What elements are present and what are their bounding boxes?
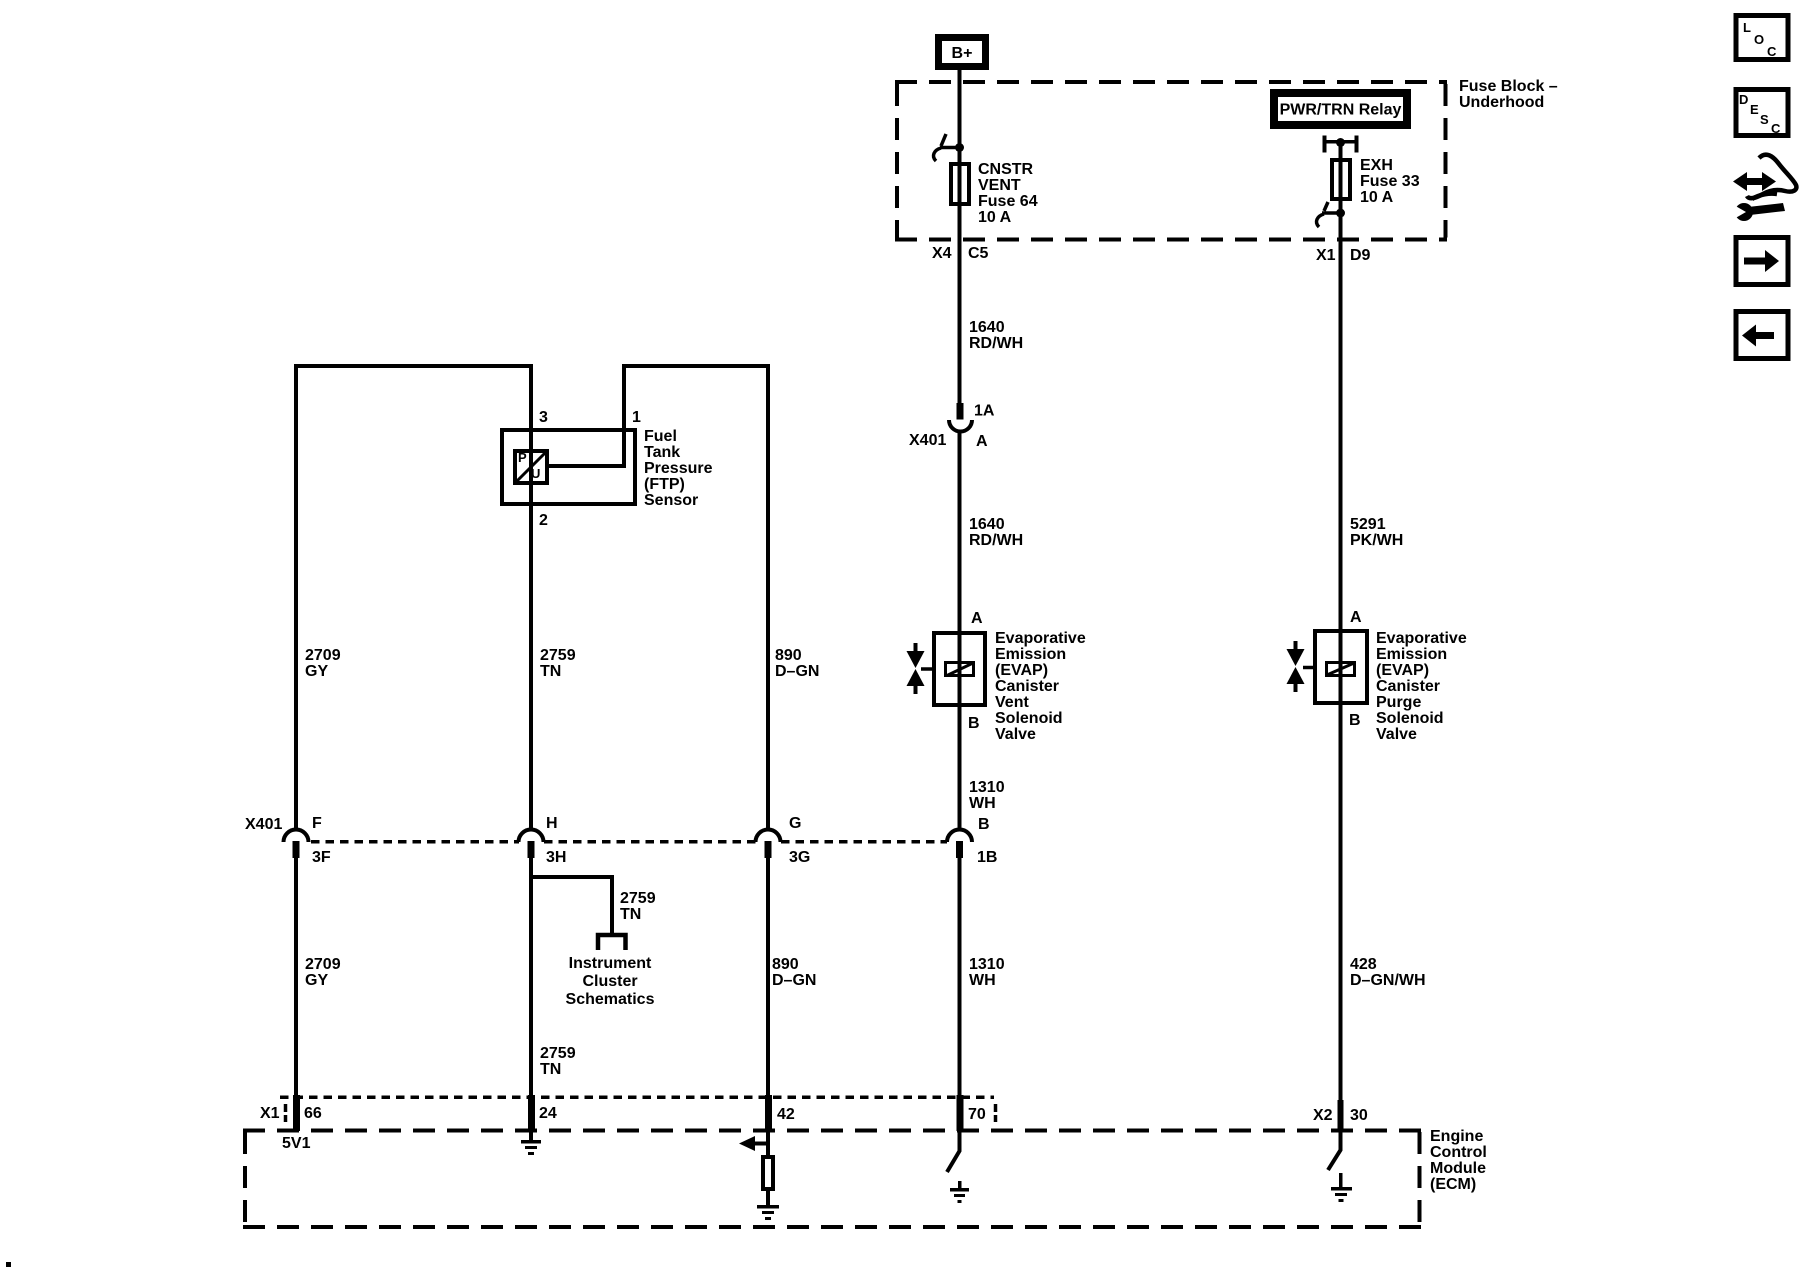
svg-text:890: 890 bbox=[772, 956, 799, 973]
svg-text:PK/WH: PK/WH bbox=[1350, 532, 1403, 549]
svg-text:1310: 1310 bbox=[969, 779, 1005, 796]
svg-text:2759: 2759 bbox=[540, 1045, 576, 1062]
svg-text:Underhood: Underhood bbox=[1459, 94, 1544, 111]
FTP sensor box bbox=[502, 430, 635, 504]
label X1 / D9 pins bbox=[1316, 247, 1371, 264]
svg-text:GY: GY bbox=[305, 663, 328, 680]
svg-text:Tank: Tank bbox=[644, 444, 680, 461]
label Instrument Cluster Schematics bbox=[566, 955, 655, 1008]
svg-text:S: S bbox=[1760, 112, 1769, 127]
B+ battery feed box bbox=[935, 34, 989, 70]
svg-text:WH: WH bbox=[969, 795, 996, 812]
wire 1310 below X401 B bbox=[958, 858, 962, 1095]
PWR/TRN Relay box bbox=[1270, 89, 1411, 129]
wire 2759 lower bbox=[529, 858, 533, 1095]
svg-text:10 A: 10 A bbox=[978, 209, 1012, 226]
connector X1 ECM fine dashed line bbox=[280, 1096, 994, 1100]
pin 30 into ECM bbox=[1338, 1100, 1344, 1131]
svg-text:U: U bbox=[531, 466, 540, 481]
svg-text:Evaporative: Evaporative bbox=[995, 630, 1086, 647]
connector X401 pin F arc bbox=[284, 815, 331, 866]
relay output terminal bracket bbox=[1323, 136, 1359, 153]
svg-text:30: 30 bbox=[1350, 1107, 1368, 1124]
wire pin1 riser bbox=[622, 364, 626, 468]
svg-text:H: H bbox=[546, 815, 558, 832]
svg-text:X401: X401 bbox=[245, 816, 282, 833]
node: junction dot above fuse 64 bbox=[955, 143, 964, 152]
svg-text:CNSTR: CNSTR bbox=[978, 161, 1034, 178]
svg-text:C: C bbox=[1771, 121, 1781, 136]
svg-text:(FTP): (FTP) bbox=[644, 476, 685, 493]
switch to ground inside ECM (purge driver) bbox=[1328, 1131, 1341, 1170]
svg-text:TN: TN bbox=[540, 663, 561, 680]
arrow signal tap at pin 42 bbox=[739, 1136, 768, 1151]
svg-text:GY: GY bbox=[305, 972, 328, 989]
clip symbol at fuse 64 bbox=[934, 134, 956, 161]
svg-text:Fuse 64: Fuse 64 bbox=[978, 193, 1038, 210]
svg-text:Schematics: Schematics bbox=[566, 991, 655, 1008]
wire 2709 vertical upper bbox=[294, 364, 298, 830]
svg-text:428: 428 bbox=[1350, 956, 1377, 973]
svg-text:Sensor: Sensor bbox=[644, 492, 698, 509]
svg-text:F: F bbox=[312, 815, 322, 832]
svg-text:Vent: Vent bbox=[995, 694, 1029, 711]
svg-text:X401: X401 bbox=[909, 432, 946, 449]
svg-text:42: 42 bbox=[777, 1106, 795, 1123]
svg-text:5V1: 5V1 bbox=[282, 1135, 311, 1152]
svg-text:66: 66 bbox=[304, 1105, 322, 1122]
svg-text:Module: Module bbox=[1430, 1160, 1486, 1177]
wire 890 lower bbox=[766, 858, 770, 1095]
svg-text:1640: 1640 bbox=[969, 516, 1005, 533]
svg-text:Valve: Valve bbox=[995, 726, 1036, 743]
icon forward-arrow button bbox=[1736, 238, 1788, 285]
svg-text:3G: 3G bbox=[789, 849, 810, 866]
svg-text:B: B bbox=[1349, 712, 1361, 729]
wire 890 vertical upper bbox=[766, 364, 770, 830]
svg-text:X1: X1 bbox=[260, 1105, 280, 1122]
svg-text:Evaporative: Evaporative bbox=[1376, 630, 1467, 647]
svg-text:B+: B+ bbox=[952, 45, 973, 62]
label wire 1310 WH lower bbox=[969, 956, 1005, 989]
svg-text:5291: 5291 bbox=[1350, 516, 1386, 533]
svg-text:1A: 1A bbox=[974, 403, 995, 420]
label wire 1310 WH upper bbox=[969, 779, 1005, 812]
wire resistor to ground bbox=[766, 1189, 770, 1205]
svg-text:A: A bbox=[1350, 609, 1362, 626]
svg-text:X4: X4 bbox=[932, 245, 952, 262]
clip symbol at fuse 33 bbox=[1317, 202, 1337, 227]
wire branch to instrument cluster bbox=[531, 875, 656, 950]
svg-text:E: E bbox=[1750, 102, 1759, 117]
Engine Control Module dashed box bbox=[243, 1131, 1421, 1228]
label Engine Control Module (ECM) bbox=[1430, 1128, 1487, 1193]
label purge solenoid bbox=[1376, 630, 1467, 743]
svg-text:Engine: Engine bbox=[1430, 1128, 1483, 1145]
svg-text:(EVAP): (EVAP) bbox=[1376, 662, 1429, 679]
pin 66 into ECM bbox=[293, 1095, 300, 1131]
svg-text:3H: 3H bbox=[546, 849, 566, 866]
svg-text:D9: D9 bbox=[1350, 247, 1371, 264]
ground below resistor bbox=[757, 1205, 779, 1220]
svg-text:TN: TN bbox=[540, 1061, 561, 1078]
svg-text:1: 1 bbox=[632, 409, 641, 426]
svg-text:2: 2 bbox=[539, 512, 548, 529]
svg-text:G: G bbox=[789, 815, 801, 832]
wire B+ to fuse 64 bbox=[958, 70, 962, 206]
svg-text:70: 70 bbox=[968, 1106, 986, 1123]
wire top horizontal right bbox=[623, 364, 770, 368]
svg-text:1B: 1B bbox=[977, 849, 997, 866]
wire pin 42 to resistor bbox=[766, 1131, 770, 1157]
svg-text:2759: 2759 bbox=[620, 890, 656, 907]
ground at ECM pin 24 bbox=[521, 1131, 541, 1155]
wire fuse 64 down to X401 bbox=[958, 206, 962, 403]
label wire 2759 TN upper bbox=[540, 647, 576, 680]
svg-text:VENT: VENT bbox=[978, 177, 1021, 194]
wire 2709 lower bbox=[294, 858, 298, 1095]
svg-text:Solenoid: Solenoid bbox=[995, 710, 1063, 727]
connector X401 pin A inline bbox=[909, 403, 995, 451]
connector X1 left separator bbox=[284, 1104, 288, 1122]
svg-text:RD/WH: RD/WH bbox=[969, 532, 1023, 549]
svg-text:890: 890 bbox=[775, 647, 802, 664]
svg-text:Cluster: Cluster bbox=[582, 973, 637, 990]
svg-text:Solenoid: Solenoid bbox=[1376, 710, 1444, 727]
svg-text:B: B bbox=[968, 715, 980, 732]
icon LOC button bbox=[1736, 16, 1788, 60]
svg-text:C5: C5 bbox=[968, 245, 989, 262]
Fuse Block - Underhood dashed box bbox=[895, 82, 1447, 240]
svg-text:D–GN: D–GN bbox=[775, 663, 819, 680]
svg-text:Control: Control bbox=[1430, 1144, 1487, 1161]
svg-text:Valve: Valve bbox=[1376, 726, 1417, 743]
label X2 / 30 pins bbox=[1313, 1107, 1368, 1124]
svg-text:3: 3 bbox=[539, 409, 548, 426]
svg-text:O: O bbox=[1754, 32, 1764, 47]
connector X401 pin H arc bbox=[519, 815, 567, 866]
svg-text:2709: 2709 bbox=[305, 647, 341, 664]
label wire 1640 RD/WH lower bbox=[969, 516, 1023, 549]
svg-text:D: D bbox=[1739, 92, 1748, 107]
svg-text:2709: 2709 bbox=[305, 956, 341, 973]
svg-text:1640: 1640 bbox=[969, 319, 1005, 336]
EVAP canister vent solenoid valve bbox=[907, 610, 986, 732]
svg-text:1310: 1310 bbox=[969, 956, 1005, 973]
wire 2759 vertical upper bbox=[529, 364, 533, 830]
label X4 / C5 pins bbox=[932, 245, 989, 262]
FTP sensor P/U transducer square bbox=[515, 450, 547, 483]
svg-text:PWR/TRN Relay: PWR/TRN Relay bbox=[1280, 102, 1402, 119]
icon harness-routing with wrench bbox=[1732, 155, 1796, 221]
wire top horizontal left bbox=[294, 364, 532, 368]
svg-text:Purge: Purge bbox=[1376, 694, 1421, 711]
svg-text:WH: WH bbox=[969, 972, 996, 989]
svg-text:D–GN: D–GN bbox=[772, 972, 816, 989]
label fuse 64 bbox=[978, 161, 1038, 226]
svg-text:2759: 2759 bbox=[540, 647, 576, 664]
label Fuel Tank Pressure (FTP) Sensor bbox=[644, 428, 713, 509]
label wire 890 D-GN upper bbox=[775, 647, 819, 680]
connector X401 dashed harness line bbox=[311, 840, 947, 844]
connector X1 right separator bbox=[994, 1104, 998, 1122]
switch to ground inside ECM (vent driver) bbox=[947, 1131, 960, 1172]
svg-text:3F: 3F bbox=[312, 849, 331, 866]
label wire 2709 GY lower bbox=[305, 956, 341, 989]
svg-text:EXH: EXH bbox=[1360, 157, 1393, 174]
svg-text:Instrument: Instrument bbox=[569, 955, 652, 972]
svg-text:(EVAP): (EVAP) bbox=[995, 662, 1048, 679]
svg-text:Pressure: Pressure bbox=[644, 460, 713, 477]
icon back-arrow button bbox=[1736, 312, 1788, 359]
label wire 2709 GY upper bbox=[305, 647, 341, 680]
svg-text:(ECM): (ECM) bbox=[1430, 1176, 1476, 1193]
label wire 890 D-GN lower bbox=[772, 956, 816, 989]
svg-text:X1: X1 bbox=[1316, 247, 1336, 264]
svg-text:B: B bbox=[978, 816, 990, 833]
svg-text:P: P bbox=[518, 450, 527, 465]
pin 42 into ECM bbox=[765, 1095, 772, 1131]
label wire 5291 PK/WH bbox=[1350, 516, 1403, 549]
label fuse 33 bbox=[1360, 157, 1420, 206]
label Fuse Block - Underhood bbox=[1459, 78, 1558, 111]
svg-text:10 A: 10 A bbox=[1360, 189, 1394, 206]
svg-text:Canister: Canister bbox=[995, 678, 1059, 695]
svg-text:D–GN/WH: D–GN/WH bbox=[1350, 972, 1426, 989]
svg-text:Emission: Emission bbox=[1376, 646, 1447, 663]
svg-text:A: A bbox=[971, 610, 983, 627]
fuse F33 (EXH Fuse 33 10A) bbox=[1332, 160, 1350, 199]
svg-text:Fuel: Fuel bbox=[644, 428, 677, 445]
label wire 428 D-GN/WH bbox=[1350, 956, 1426, 989]
pin 24 into ECM bbox=[528, 1095, 535, 1131]
svg-text:A: A bbox=[976, 433, 988, 450]
wire inside sensor to P/U bbox=[549, 464, 626, 468]
resistor inside ECM bbox=[763, 1157, 773, 1189]
svg-text:X2: X2 bbox=[1313, 1107, 1333, 1124]
node: junction dot below fuse 33 bbox=[1336, 209, 1345, 218]
svg-text:Emission: Emission bbox=[995, 646, 1066, 663]
svg-text:C: C bbox=[1767, 44, 1777, 59]
icon DESC button bbox=[1736, 90, 1788, 137]
fuse F64 (CNSTR VENT Fuse 64 10A) bbox=[951, 164, 969, 204]
wire X401 A to vent solenoid bbox=[958, 432, 962, 830]
svg-text:RD/WH: RD/WH bbox=[969, 335, 1023, 352]
wire vent solenoid to X401 B bbox=[958, 705, 962, 830]
ground at ECM pin 30 bbox=[1331, 1173, 1352, 1202]
svg-text:TN: TN bbox=[620, 906, 641, 923]
label vent solenoid bbox=[995, 630, 1086, 743]
svg-text:L: L bbox=[1743, 20, 1751, 35]
svg-text:24: 24 bbox=[539, 1105, 557, 1122]
svg-text:Fuse Block –: Fuse Block – bbox=[1459, 78, 1558, 95]
svg-text:Canister: Canister bbox=[1376, 678, 1440, 695]
connector X401 pin G arc bbox=[756, 815, 811, 866]
connector X401 pin B arc bbox=[947, 816, 997, 866]
pin 70 into ECM bbox=[957, 1095, 964, 1131]
ground at ECM pin 70 bbox=[950, 1181, 969, 1203]
EVAP canister purge solenoid valve bbox=[1287, 609, 1368, 729]
label wire 2759 TN lower bbox=[540, 1045, 576, 1078]
label wire 1640 RD/WH upper bbox=[969, 319, 1023, 352]
page corner mark bbox=[6, 1262, 11, 1267]
svg-text:Fuse 33: Fuse 33 bbox=[1360, 173, 1420, 190]
wire relay to ECM column bbox=[1339, 146, 1343, 1100]
